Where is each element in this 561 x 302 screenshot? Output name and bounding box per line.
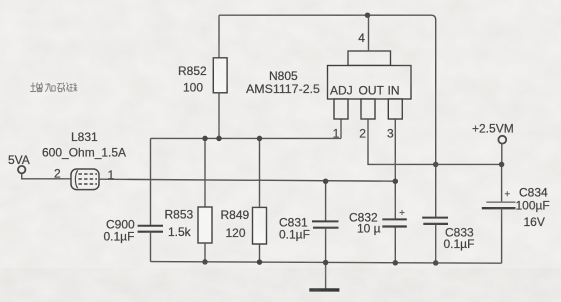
node 5VA terminal	[8, 153, 71, 179]
wire: R852 top lead	[218, 15, 220, 58]
wire: R852 bottom lead to ADJ node	[218, 93, 220, 139]
wire: ground rail	[151, 262, 502, 264]
wire: right vertical drop from top rail down to OUT rail and C833 top	[435, 19, 437, 217]
wire: tab pin4 stem to top rail	[368, 15, 370, 51]
ground	[309, 263, 339, 290]
capacitor C832	[349, 210, 407, 235]
resistor R849	[221, 138, 267, 262]
wire: ADJ node horizontal rail	[151, 137, 342, 139]
wire: pin1 lead down from regulator leg to ADJ rail	[340, 119, 342, 138]
op-amp U1 regulator N805 AMS1117-2.5 body	[246, 31, 411, 141]
wire: top output rail from R852 top to right-side drop	[219, 15, 436, 20]
node note: Chinese annotation 增加磁珠	[30, 83, 77, 92]
wire: 5VA input rail from bead to IN column	[99, 179, 395, 181]
node +2.5VM terminal	[472, 121, 514, 164]
capacitor C834	[482, 164, 550, 263]
wire: pin2 OUT down and right to +2.5VM	[368, 119, 502, 164]
wire: C833 bottom lead to ground rail	[435, 224, 437, 263]
wire: C900 column upper lead	[150, 138, 152, 225]
capacitor C900	[104, 218, 164, 244]
wire: C832 bottom lead	[394, 227, 396, 263]
node junction dots	[202, 12, 504, 265]
inductor L831 ferrite bead	[42, 130, 126, 190]
wire: C900 bottom lead	[150, 232, 152, 262]
resistor R852	[213, 58, 227, 93]
wire: pin3 IN down through 5VA rail to C832 top	[394, 119, 396, 219]
capacitor C833	[422, 218, 474, 251]
capacitor C831	[279, 181, 339, 262]
resistor R853	[165, 138, 213, 262]
